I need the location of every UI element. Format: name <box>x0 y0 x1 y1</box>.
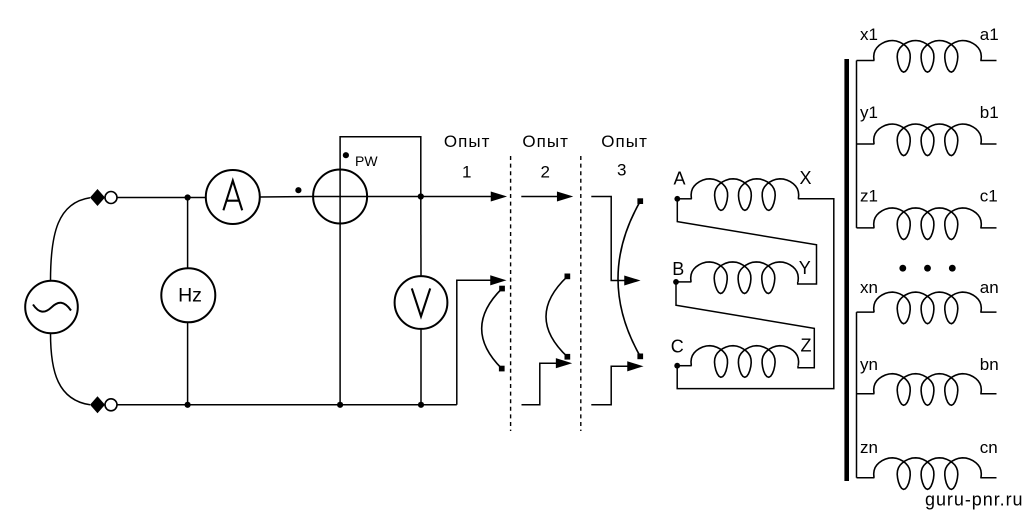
node terminal A <box>674 196 680 202</box>
svg-text:z1: z1 <box>860 187 878 206</box>
wire X to C (delta) <box>677 199 834 389</box>
winding xn-an secondary <box>874 292 982 324</box>
AC source G1 <box>25 281 78 334</box>
wire zn lead <box>857 477 875 479</box>
svg-text:bn: bn <box>980 355 999 374</box>
svg-text:x1: x1 <box>860 25 878 44</box>
wire experiment 3 probe feed <box>591 366 628 405</box>
wire bottom rail <box>117 404 457 406</box>
node junction bottom Hz <box>185 402 191 408</box>
ammeter A <box>206 170 260 224</box>
wire x1 lead <box>857 60 875 62</box>
winding y1-b1 secondary <box>874 124 982 156</box>
wire B lead <box>676 281 691 283</box>
wire (source bottom lead) <box>51 333 91 405</box>
svg-text:PW: PW <box>355 153 378 169</box>
svg-text:guru-pnr.ru: guru-pnr.ru <box>925 490 1024 510</box>
wire experiment 1 probe feed <box>457 280 492 405</box>
probe square experiment 1 bottom <box>499 366 505 372</box>
winding C-Z primary <box>691 346 799 378</box>
wire V branch bottom <box>420 329 422 405</box>
svg-text:3: 3 <box>617 161 628 180</box>
winding zn-cn secondary <box>874 458 982 490</box>
wire B to Z (delta) <box>676 282 814 368</box>
arrow experiment 1 probe <box>491 276 504 284</box>
svg-text:y1: y1 <box>860 103 878 122</box>
wire W to experiment-1 arrow <box>367 196 492 198</box>
probe arc experiment 3 <box>618 201 640 356</box>
svg-text:yn: yn <box>860 355 878 374</box>
separator dashed line 1 <box>510 156 512 431</box>
wire yn lead <box>857 393 875 395</box>
svg-text:X: X <box>800 168 812 188</box>
frequency meter Hz <box>161 268 215 322</box>
wire wattmeter left leg down <box>339 224 341 406</box>
wire A lead <box>677 198 692 200</box>
svg-text:an: an <box>980 278 999 297</box>
wire bn lead <box>980 393 996 395</box>
wire b1 lead <box>980 143 996 145</box>
svg-text:A: A <box>674 169 686 189</box>
winding A-X primary <box>691 179 799 211</box>
svg-text:1: 1 <box>462 162 473 181</box>
label Opyt 2 <box>522 132 569 182</box>
probe square experiment 2 top <box>565 274 571 280</box>
wire c1 lead <box>980 227 996 229</box>
winding B-Y primary <box>691 262 799 294</box>
secondary bus xn-zn <box>856 312 858 478</box>
node junction wattmeter right <box>418 193 424 199</box>
wire (source top lead) <box>51 198 91 281</box>
node ellipsis dots <box>899 265 955 272</box>
svg-text:Опыт: Опыт <box>444 132 491 151</box>
svg-text:b1: b1 <box>980 103 999 122</box>
voltmeter V <box>395 276 448 329</box>
wire top rail <box>117 197 206 199</box>
svg-text:zn: zn <box>860 438 878 457</box>
arrow experiment 3 probe <box>628 362 641 370</box>
svg-text:Опыт: Опыт <box>601 132 648 151</box>
wire A to Y (delta) <box>677 199 816 284</box>
wire experiment 2 feed <box>521 196 558 198</box>
wire experiment 3 feed <box>591 197 625 281</box>
winding yn-bn secondary <box>874 374 982 406</box>
probe square experiment 3 bottom <box>637 354 643 360</box>
wire z1 lead <box>857 227 875 229</box>
svg-text:Опыт: Опыт <box>522 132 569 151</box>
wattmeter current-coil polarity dot <box>295 187 301 193</box>
winding x1-a1 secondary <box>874 41 982 73</box>
wattmeter PW <box>313 170 367 224</box>
probe arc experiment 2 <box>546 276 567 356</box>
arrow experiment 3 feed <box>625 277 638 285</box>
separator dashed line 2 <box>580 156 582 431</box>
secondary bus x1-z1 <box>856 61 858 228</box>
connector bottom plug <box>90 396 117 413</box>
arrow experiment 2 probe <box>557 359 570 367</box>
probe square experiment 2 bottom <box>565 354 571 360</box>
wire experiment 2 probe feed <box>522 363 558 405</box>
wire wattmeter box <box>340 137 421 197</box>
svg-text:C: C <box>671 337 684 357</box>
svg-text:xn: xn <box>860 278 878 297</box>
node junction top Hz <box>185 194 191 200</box>
wire C lead <box>677 365 692 367</box>
winding z1-c1 secondary <box>874 208 982 240</box>
wire V branch top <box>420 197 422 277</box>
svg-text:Z: Z <box>801 336 812 356</box>
svg-text:2: 2 <box>540 162 551 181</box>
wire a1 lead <box>980 60 996 62</box>
node junction bottom V <box>418 402 424 408</box>
probe square experiment 1 top <box>499 286 505 292</box>
svg-text:Hz: Hz <box>178 285 202 307</box>
label Opyt 1 <box>444 132 491 182</box>
svg-text:c1: c1 <box>980 187 998 206</box>
label Opyt 3 <box>601 132 648 180</box>
wire A to wattmeter <box>260 196 313 199</box>
svg-text:cn: cn <box>980 438 998 457</box>
wire Hz branch bottom <box>187 322 189 405</box>
arrow experiment 2 feed <box>558 193 571 201</box>
wire y1 lead <box>857 143 875 145</box>
node terminal B <box>673 279 679 285</box>
connector top plug <box>90 189 117 206</box>
svg-text:Y: Y <box>799 258 811 278</box>
node junction bottom wattmeter <box>337 402 343 408</box>
wire Hz branch top <box>187 198 189 269</box>
wire xn lead <box>857 311 875 313</box>
svg-text:B: B <box>672 259 684 279</box>
wattmeter potential polarity dot <box>343 152 349 158</box>
core bar separator <box>844 59 849 481</box>
svg-text:a1: a1 <box>980 25 999 44</box>
node terminal C <box>674 363 680 369</box>
probe square experiment 3 top <box>637 198 643 204</box>
wire an lead <box>980 311 996 313</box>
wire cn lead <box>980 477 996 479</box>
arrow experiment 1 feed <box>492 193 505 201</box>
probe arc experiment 1 <box>482 289 502 369</box>
